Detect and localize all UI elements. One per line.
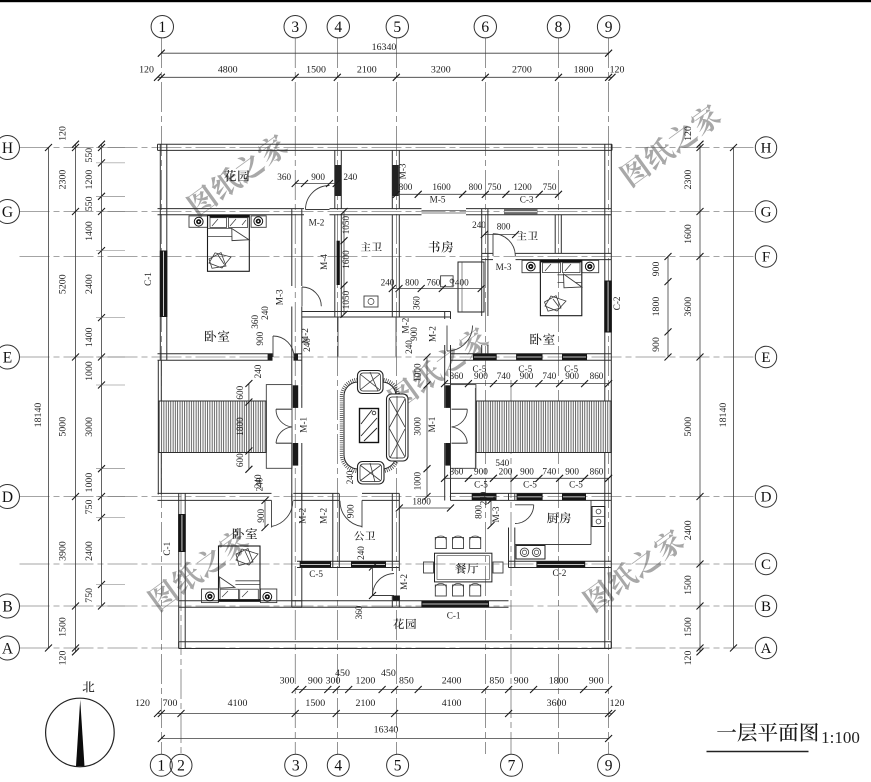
svg-text:1600: 1600 <box>683 224 694 244</box>
svg-text:550: 550 <box>84 148 95 163</box>
svg-text:750: 750 <box>84 588 95 603</box>
wall C axis5 vertical <box>391 150 393 208</box>
svg-text:1200: 1200 <box>356 676 376 687</box>
svg-text:2400: 2400 <box>84 274 95 294</box>
garden fence wall bottom (A) <box>179 641 612 643</box>
svg-text:120: 120 <box>610 698 625 709</box>
svg-text:450: 450 <box>381 668 396 679</box>
svg-text:900: 900 <box>514 676 529 687</box>
rockery top <box>358 371 384 394</box>
svg-text:900: 900 <box>589 676 604 687</box>
bed TR with nightstands <box>522 260 540 272</box>
door M-2 bedroom TL south <box>272 336 274 357</box>
svg-text:7: 7 <box>508 758 516 775</box>
svg-text:3: 3 <box>292 758 300 775</box>
svg-text:F: F <box>762 250 770 266</box>
svg-text:2400: 2400 <box>683 520 694 540</box>
svg-text:C-2: C-2 <box>612 296 622 310</box>
svg-text:M-3: M-3 <box>397 163 407 179</box>
svg-text:120: 120 <box>683 126 694 141</box>
svg-text:3000: 3000 <box>413 417 423 436</box>
svg-text:M-3: M-3 <box>496 262 512 272</box>
room label public bath <box>354 531 375 540</box>
axis grid lines (dash-dot) <box>160 38 162 754</box>
svg-text:1800: 1800 <box>651 297 662 317</box>
dim 1800 dining top <box>399 507 450 509</box>
bottom dimension tier 1 <box>295 689 608 691</box>
hatched ramp right <box>476 401 611 453</box>
svg-text:240: 240 <box>253 364 263 378</box>
courtyard dims left 600 1800 600 <box>248 384 250 470</box>
rockery bottom <box>358 462 385 485</box>
svg-text:240: 240 <box>255 477 265 491</box>
bedroom SW east wall <box>291 493 293 607</box>
dining west wall axis5 lower <box>391 493 393 571</box>
svg-text:1: 1 <box>158 19 166 36</box>
svg-text:240: 240 <box>260 306 270 320</box>
svg-text:450: 450 <box>335 668 350 679</box>
M-1 west door frame posts <box>293 385 298 408</box>
svg-text:5: 5 <box>394 758 402 775</box>
veranda C-5 dim chain bottom <box>445 477 609 479</box>
hatched ramp left <box>159 401 267 453</box>
svg-text:4100: 4100 <box>442 698 462 709</box>
right exterior wall <box>604 144 606 648</box>
svg-text:1000: 1000 <box>413 363 423 382</box>
dining table <box>435 553 492 582</box>
right dimension chain sub F-E <box>667 257 669 358</box>
svg-text:3600: 3600 <box>683 297 694 317</box>
svg-text:120: 120 <box>610 65 625 76</box>
svg-text:5000: 5000 <box>58 417 69 437</box>
svg-text:1000: 1000 <box>84 473 95 493</box>
svg-text:2: 2 <box>177 758 185 775</box>
svg-text:3200: 3200 <box>431 65 451 76</box>
wall B (south wall bedroom SW + dining) <box>179 600 302 602</box>
north arrow <box>46 698 115 767</box>
svg-text:G: G <box>761 205 772 221</box>
svg-text:9: 9 <box>605 758 613 775</box>
svg-text:740: 740 <box>497 371 511 381</box>
svg-text:300: 300 <box>280 676 295 687</box>
svg-text:900: 900 <box>255 331 265 345</box>
windows C-5 on D wall <box>472 493 497 500</box>
dims above M-2 door at G <box>295 183 336 185</box>
window C-2 right wall <box>604 281 612 333</box>
svg-text:120: 120 <box>58 651 69 666</box>
landing slab right <box>451 385 476 469</box>
double door M-1 east <box>452 408 468 410</box>
svg-text:H: H <box>2 140 13 157</box>
svg-text:240: 240 <box>343 172 357 182</box>
svg-text:D: D <box>2 489 13 506</box>
svg-text:1050: 1050 <box>341 290 351 309</box>
svg-text:M-2: M-2 <box>399 574 409 590</box>
svg-text:B: B <box>2 598 12 615</box>
top dimension tier 2 <box>158 76 613 78</box>
svg-text:2400: 2400 <box>442 676 462 687</box>
svg-text:240: 240 <box>356 546 366 560</box>
room label kitchen <box>547 512 571 523</box>
svg-text:M-2: M-2 <box>428 326 438 342</box>
bed SW with nightstands (headboard south) <box>202 589 219 603</box>
bottom dimension tier 3 total 16340 <box>161 738 608 740</box>
bottom wing: wall D y493-500 <box>158 492 272 494</box>
door M-3 bedroom TL east <box>301 287 303 306</box>
wall A interior x292-302 (bedroom TL east, pond hall west) <box>291 209 293 286</box>
svg-text:M-2: M-2 <box>319 507 329 523</box>
svg-text:550: 550 <box>84 196 95 211</box>
jamb blocks at bedroom TL south door <box>268 354 273 360</box>
right dimension chain 18140 <box>733 148 735 649</box>
svg-text:1000: 1000 <box>84 361 95 381</box>
svg-text:900: 900 <box>520 371 534 381</box>
svg-text:120: 120 <box>135 698 150 709</box>
svg-text:2100: 2100 <box>357 65 377 76</box>
svg-text:1500: 1500 <box>58 617 69 637</box>
blanket scribble SW <box>236 549 258 566</box>
svg-text:360: 360 <box>250 315 260 329</box>
svg-text:900: 900 <box>565 371 579 381</box>
svg-text:240: 240 <box>404 340 414 354</box>
svg-text:1800: 1800 <box>412 497 431 507</box>
svg-text:360: 360 <box>277 172 291 182</box>
door M-2 public bath (in D wall) <box>361 500 363 527</box>
svg-text:M-4: M-4 <box>319 254 329 270</box>
study desk and chair <box>458 262 484 312</box>
kitchen counter, stove, sink <box>515 544 591 546</box>
svg-text:1600: 1600 <box>341 250 351 269</box>
svg-text:2700: 2700 <box>512 65 532 76</box>
svg-text:600: 600 <box>235 385 245 399</box>
svg-text:900: 900 <box>256 509 266 523</box>
svg-text:740: 740 <box>542 467 556 477</box>
svg-text:3900: 3900 <box>58 541 69 561</box>
svg-text:860: 860 <box>590 467 604 477</box>
svg-text:E: E <box>3 349 12 366</box>
svg-text:8: 8 <box>555 19 563 36</box>
svg-text:1500: 1500 <box>306 65 326 76</box>
svg-text:900: 900 <box>520 467 534 477</box>
svg-text:2100: 2100 <box>356 698 376 709</box>
room label garden top <box>224 170 249 182</box>
veranda C-5 dim chain top <box>445 383 609 385</box>
svg-text:750: 750 <box>488 182 502 192</box>
watermarks <box>185 131 291 219</box>
room label bedroom SW <box>233 528 258 540</box>
door M-3 kitchen <box>515 504 534 506</box>
svg-text:4800: 4800 <box>218 65 238 76</box>
room label study <box>429 241 453 253</box>
svg-text:700: 700 <box>163 698 178 709</box>
svg-text:M-5: M-5 <box>430 195 446 205</box>
svg-text:900: 900 <box>474 467 488 477</box>
svg-text:3600: 3600 <box>547 698 567 709</box>
double door M-1 west <box>276 408 292 410</box>
wall E (south wall of top wing) <box>158 353 273 355</box>
wall C: corridor + public bath bottom with windows <box>297 560 399 562</box>
grid bubbles left <box>0 136 20 160</box>
svg-text:1200: 1200 <box>84 170 95 190</box>
room label garden bottom <box>393 618 416 629</box>
bed TL with nightstands <box>189 216 208 227</box>
svg-text:900: 900 <box>651 262 662 277</box>
svg-text:900: 900 <box>311 172 325 182</box>
svg-text:1: 1 <box>157 758 165 775</box>
top dimension tier 1 total 16340 <box>161 52 608 54</box>
basin bath TL <box>364 296 378 307</box>
dims M-5 C-3 row at G <box>396 193 558 195</box>
svg-text:B: B <box>761 599 771 615</box>
svg-text:C-2: C-2 <box>553 568 567 578</box>
window C-3 on G wall <box>504 209 538 214</box>
svg-text:120: 120 <box>139 65 154 76</box>
dark bar in bath TL west wall <box>337 241 340 285</box>
svg-text:16340: 16340 <box>372 42 397 53</box>
svg-text:1:100: 1:100 <box>821 728 860 747</box>
svg-text:750: 750 <box>84 500 95 515</box>
grid bubbles bottom <box>150 754 172 776</box>
door M-2 dining west <box>373 595 395 597</box>
svg-text:900: 900 <box>474 371 488 381</box>
svg-text:18140: 18140 <box>718 403 729 428</box>
svg-text:C-3: C-3 <box>520 195 534 205</box>
door M-2 garden to hall at G <box>306 209 330 211</box>
ornamental pond border with plant fringe <box>342 380 399 472</box>
svg-text:240: 240 <box>381 278 395 288</box>
svg-text:760: 760 <box>427 278 441 288</box>
svg-text:A: A <box>761 641 772 657</box>
room label bedroom TR <box>530 333 555 345</box>
bath TL south wall / study south wall <box>302 311 451 313</box>
svg-text:16340: 16340 <box>374 725 399 736</box>
svg-text:800: 800 <box>405 278 419 288</box>
svg-text:200: 200 <box>499 467 513 477</box>
door M-2 hall east <box>446 326 448 352</box>
courtyard dims mid 1000 3000 1000 <box>426 357 428 497</box>
svg-text:850: 850 <box>399 676 414 687</box>
pond water rect with hatch <box>360 409 379 443</box>
svg-text:740: 740 <box>542 371 556 381</box>
landing slab left <box>266 385 292 469</box>
svg-text:1500: 1500 <box>683 617 694 637</box>
svg-text:1800: 1800 <box>235 417 245 436</box>
dining stools <box>435 538 446 549</box>
corridor east wall <box>332 493 334 567</box>
svg-text:240: 240 <box>345 470 355 484</box>
svg-text:860: 860 <box>450 467 464 477</box>
rockery right <box>387 394 409 461</box>
svg-text:4100: 4100 <box>228 698 248 709</box>
wall C kitchen bottom with C-2 window <box>509 560 612 562</box>
svg-text:360: 360 <box>354 605 364 619</box>
left dimension chain sub <box>101 144 103 606</box>
bath TR east wall <box>554 215 556 254</box>
room label master bath TR <box>517 231 538 240</box>
wall F (bath south / bedroom TR north) with M-3 door gap <box>482 252 493 254</box>
svg-text:900: 900 <box>565 467 579 477</box>
svg-text:850: 850 <box>489 676 504 687</box>
blanket scribble TR <box>545 296 567 311</box>
svg-text:240: 240 <box>302 338 312 352</box>
svg-text:900: 900 <box>345 504 355 518</box>
svg-text:1800: 1800 <box>574 65 594 76</box>
svg-text:900: 900 <box>409 327 419 341</box>
svg-text:C-1: C-1 <box>143 272 153 286</box>
svg-text:860: 860 <box>450 371 464 381</box>
svg-text:2300: 2300 <box>683 170 694 190</box>
kitchen west wall axis7 <box>508 493 510 500</box>
svg-text:5: 5 <box>393 19 401 36</box>
svg-text:750: 750 <box>543 182 557 192</box>
dims bath TL vertical 1050 1600 1050 <box>343 212 345 315</box>
svg-text:240: 240 <box>479 491 489 505</box>
wall B axis4 vertical <box>334 150 336 208</box>
window C-1 on B wall (dining) <box>421 601 489 608</box>
svg-text:2400: 2400 <box>84 541 95 561</box>
svg-text:1200: 1200 <box>513 182 532 192</box>
svg-text:1600: 1600 <box>432 182 451 192</box>
svg-text:900: 900 <box>308 676 323 687</box>
svg-text:C: C <box>761 557 771 573</box>
svg-text:800: 800 <box>473 505 483 519</box>
svg-text:240: 240 <box>472 220 486 230</box>
wall G (north wall of rooms) <box>158 208 305 210</box>
grid bubbles right <box>755 137 776 158</box>
svg-text:860: 860 <box>590 371 604 381</box>
svg-text:M-2: M-2 <box>298 507 308 523</box>
svg-text:M-1: M-1 <box>427 416 437 432</box>
svg-text:3000: 3000 <box>84 417 95 437</box>
left exterior wall <box>159 144 161 360</box>
dims study row 240 800 760 1400 <box>392 288 481 290</box>
svg-text:M-2: M-2 <box>309 218 325 228</box>
door M-3 bath TR (in F wall) <box>492 234 494 256</box>
room label bedroom TL (rotated) <box>205 330 230 342</box>
svg-text:9: 9 <box>605 19 613 36</box>
svg-text:M-1: M-1 <box>299 416 309 432</box>
windows C-5 on E wall <box>473 354 497 360</box>
svg-text:540: 540 <box>495 458 509 468</box>
svg-text:6: 6 <box>481 19 489 36</box>
door M-2 bedroom SW (in D wall) <box>271 500 273 527</box>
svg-text:5200: 5200 <box>58 274 69 294</box>
left dimension chain main <box>75 144 77 652</box>
svg-text:E: E <box>761 350 770 366</box>
svg-text:800: 800 <box>497 222 511 232</box>
svg-text:D: D <box>761 490 772 506</box>
svg-text:360: 360 <box>412 296 422 310</box>
wall D interior x445-450.5 (pond hall east) <box>444 312 446 320</box>
left courtyard wall E-D <box>157 360 159 495</box>
svg-text:C-1: C-1 <box>162 541 172 555</box>
svg-text:4: 4 <box>334 758 342 775</box>
right dimension chain main <box>699 144 701 652</box>
svg-text:2300: 2300 <box>58 170 69 190</box>
wall E axis6 vertical <box>481 209 483 316</box>
svg-text:120: 120 <box>58 126 69 141</box>
svg-text:3: 3 <box>291 19 299 36</box>
bottom wing left wall axis2 <box>178 493 180 648</box>
grid bubbles top <box>151 16 173 38</box>
svg-text:120: 120 <box>683 651 694 666</box>
svg-text:600: 600 <box>235 453 245 467</box>
svg-text:1800: 1800 <box>549 676 569 687</box>
svg-text:1500: 1500 <box>683 575 694 595</box>
svg-text:5000: 5000 <box>683 417 694 437</box>
svg-text:C-5: C-5 <box>474 480 488 490</box>
svg-text:900: 900 <box>651 337 662 352</box>
window C-1 on bottom-left wall <box>178 514 186 552</box>
svg-text:1050: 1050 <box>341 216 351 235</box>
svg-text:C-5: C-5 <box>523 480 537 490</box>
svg-text:800: 800 <box>399 182 413 192</box>
svg-text:800: 800 <box>469 182 483 192</box>
svg-text:1400: 1400 <box>84 221 95 241</box>
svg-text:1400: 1400 <box>450 278 469 288</box>
svg-text:1500: 1500 <box>305 698 325 709</box>
svg-text:C-1: C-1 <box>447 611 461 621</box>
svg-text:4: 4 <box>334 19 342 36</box>
svg-text:H: H <box>761 141 772 157</box>
M-1 east door frame posts <box>445 385 450 408</box>
svg-text:M-3: M-3 <box>275 289 285 305</box>
room label master bath TL <box>361 242 382 251</box>
svg-text:1000: 1000 <box>413 472 423 491</box>
svg-text:A: A <box>2 640 14 657</box>
svg-text:G: G <box>2 204 13 221</box>
door M-5 threshold lines in G wall <box>422 210 467 212</box>
title first floor plan 1:100 <box>717 723 818 742</box>
svg-text:C-5: C-5 <box>309 569 323 579</box>
window C-1 left wall <box>160 251 168 318</box>
svg-text:18140: 18140 <box>33 403 44 428</box>
room label dining <box>455 563 478 574</box>
garden fence wall top (H) <box>158 143 613 145</box>
bottom dimension tier 2 <box>158 713 613 715</box>
blanket scribble TL <box>209 253 231 269</box>
svg-text:M-3: M-3 <box>491 506 501 522</box>
left dimension chain 18140 <box>48 148 50 649</box>
svg-text:1400: 1400 <box>84 327 95 347</box>
top black border bar <box>0 0 871 2</box>
